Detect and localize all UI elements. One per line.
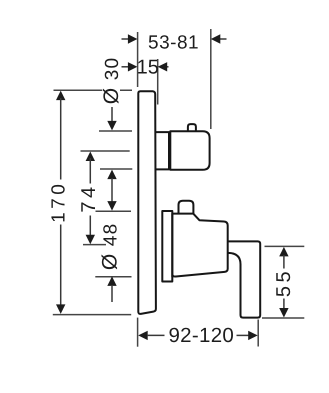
dimension 55 xyxy=(273,247,295,318)
extension line 5 right xyxy=(157,59,159,105)
svg-text:74: 74 xyxy=(78,183,100,212)
extension line 92-120 right xyxy=(257,320,259,347)
extension line 55 top xyxy=(265,245,305,247)
extension line 74 bottom centerline xyxy=(83,244,106,246)
dimension diameter 30 xyxy=(100,57,123,211)
lever handle xyxy=(228,241,261,317)
extension line 74 top centerline xyxy=(81,150,130,152)
extension line diameter-30 bottom xyxy=(100,168,132,170)
volume sleeve xyxy=(162,211,172,282)
svg-text:Ø 48: Ø 48 xyxy=(98,223,121,271)
extension line 170 top xyxy=(54,89,133,91)
dimension 170 xyxy=(48,91,69,314)
svg-text:53-81: 53-81 xyxy=(148,32,199,53)
extension line diameter-48 top xyxy=(96,210,132,212)
extension line 53-81 right xyxy=(210,29,212,129)
thermostat sleeve xyxy=(156,132,169,169)
extension line 55 bottom xyxy=(262,317,304,319)
svg-text:Ø 30: Ø 30 xyxy=(100,57,123,105)
svg-text:15: 15 xyxy=(137,56,159,78)
dimension 92-120 xyxy=(138,324,258,347)
extension line 92-120 left xyxy=(137,318,139,347)
dimension diameter 48 xyxy=(98,223,121,302)
extension line 170 bottom xyxy=(53,314,131,316)
extension line diameter-48 bottom xyxy=(95,276,131,278)
dimension 74 xyxy=(78,152,100,245)
dimension 5 xyxy=(122,56,169,78)
svg-text:55: 55 xyxy=(273,268,295,297)
extension line diameter-30 top xyxy=(99,130,132,132)
volume button xyxy=(179,201,194,214)
thermostat safety button xyxy=(188,124,196,131)
dimension 53-81 xyxy=(122,32,227,53)
svg-text:170: 170 xyxy=(48,181,69,223)
thermostat body xyxy=(170,131,209,170)
volume body xyxy=(172,214,227,277)
wall plate xyxy=(138,91,156,314)
extension line top-left shared (53-81 and 5) xyxy=(137,32,139,87)
svg-text:92-120: 92-120 xyxy=(168,324,234,347)
